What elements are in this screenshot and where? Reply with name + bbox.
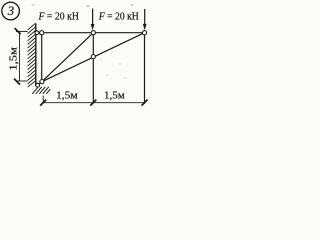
node B pin — [40, 80, 44, 84]
wall hatching — [28, 23, 36, 87]
wire top chord A-C-E — [36, 32, 145, 34]
scan specks — [87, 5, 89, 7]
wire support link B — [38, 82, 42, 85]
node wall pin top — [35, 31, 39, 35]
node C — [91, 31, 95, 35]
wire diagonal B-C — [42, 33, 94, 82]
left vertical dimension line — [16, 32, 28, 82]
wire left vertical A-B — [41, 33, 43, 82]
truss members — [36, 33, 145, 104]
svg-text:1,5м: 1,5м — [104, 91, 125, 102]
wire middle vertical C-D and extension — [92, 33, 94, 104]
dim tick top — [15, 28, 21, 34]
dim tick bottom — [14, 79, 20, 85]
force arrow F2 — [143, 9, 147, 30]
problem number circle 3 — [2, 2, 20, 20]
svg-text:F = 20 кН: F = 20 кН — [38, 11, 79, 23]
force arrow F1 — [91, 9, 95, 31]
node E — [142, 31, 146, 35]
svg-text:1,5м: 1,5м — [56, 91, 78, 102]
node wall pin bottom — [36, 83, 40, 87]
svg-text:3: 3 — [7, 4, 14, 18]
wire diagonal B-D-E — [42, 33, 145, 82]
support hatching under pin B — [32, 87, 50, 94]
node D — [91, 55, 95, 59]
svg-text:1,5м: 1,5м — [8, 47, 19, 71]
node A — [40, 31, 44, 35]
dim tick middle — [90, 100, 96, 106]
dim tick right — [142, 100, 148, 106]
bottom dimension line — [43, 96, 144, 104]
wire right vertical E and extension — [144, 33, 146, 104]
dim tick left — [40, 100, 46, 106]
svg-text:F = 20 кН: F = 20 кН — [98, 11, 139, 23]
